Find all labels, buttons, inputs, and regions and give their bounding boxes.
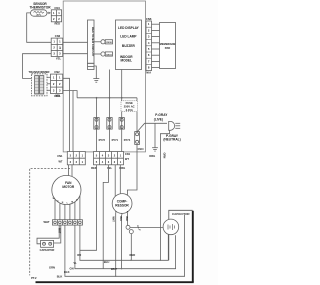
node dot rail B comp <box>121 268 122 269</box>
svg-text:FUSE: FUSE <box>126 101 133 105</box>
wire rectifier to ground <box>94 66 96 79</box>
ground symbol <box>93 79 99 83</box>
svg-text:RY72: RY72 <box>99 138 106 142</box>
membrane pad wires <box>152 24 160 67</box>
wire OLP to run capacitor <box>130 226 163 228</box>
wire display to bus 1 <box>109 70 111 98</box>
node dot 3 <box>121 97 123 99</box>
svg-text:P-GRAY: P-GRAY <box>155 113 168 117</box>
svg-text:BLK: BLK <box>64 270 70 274</box>
svg-text:(LIVE): (LIVE) <box>154 118 163 122</box>
svg-text:RED: RED <box>91 166 97 170</box>
wire bus to relay RY74 <box>121 98 123 152</box>
wire fan to capacitor 1 <box>37 225 59 244</box>
svg-text:ORG: ORG <box>149 154 155 158</box>
svg-text:M: M <box>71 202 73 204</box>
svg-text:25°C: 25°C <box>36 15 41 17</box>
wire CN3 to transformer <box>23 54 52 79</box>
wire fan capacitor 2 <box>52 225 61 243</box>
chassis ground symbol <box>149 148 158 159</box>
svg-text:CN4: CN4 <box>54 6 60 10</box>
varistor ZNR1 <box>101 40 113 45</box>
svg-text:BLK: BLK <box>57 274 63 278</box>
wire CN2 to strip A <box>63 78 70 152</box>
bus wire horizontal <box>77 97 137 99</box>
wire strip to compressor 2 <box>119 165 121 195</box>
wire bus to relay RY71 <box>109 98 111 152</box>
label P-GRAY LIVE <box>154 113 168 121</box>
wire compressor S to rail C <box>115 213 117 277</box>
svg-text:3.15A: 3.15A <box>126 108 133 112</box>
connector CN6 <box>146 17 152 74</box>
wire rail A <box>80 225 168 260</box>
outdoor section dashed border <box>30 168 70 275</box>
svg-text:RED: RED <box>130 253 136 257</box>
wire strip to compressor 1 <box>114 165 116 198</box>
svg-text:CN31: CN31 <box>106 54 112 56</box>
svg-text:WHT: WHT <box>43 220 49 224</box>
wire strip col3 jog to rail B <box>103 165 108 269</box>
rectifier circuit box <box>88 20 96 70</box>
svg-text:CN2: CN2 <box>54 70 60 74</box>
svg-text:LED DISPLAY: LED DISPLAY <box>118 26 140 30</box>
svg-text:PAD: PAD <box>165 46 171 50</box>
svg-text:RD: RD <box>77 253 81 257</box>
svg-text:N/A: N/A <box>146 70 151 74</box>
wire transformer out 2 <box>47 83 51 85</box>
transformer T1 <box>29 70 50 96</box>
bottom thick border <box>36 281 194 283</box>
terminal strip right group <box>94 152 124 165</box>
wire strip col5 to rail A <box>80 165 97 251</box>
fan motor M1 <box>52 175 81 204</box>
connector CN4 <box>51 6 61 26</box>
svg-text:CN10: CN10 <box>138 149 145 151</box>
svg-text:CN1: CN1 <box>125 152 131 156</box>
svg-text:WHT: WHT <box>112 217 114 223</box>
overload protector OLP <box>126 225 140 234</box>
svg-text:MOTOR: MOTOR <box>62 185 75 189</box>
svg-text:BUZZER: BUZZER <box>122 44 136 48</box>
power plug <box>169 121 181 130</box>
svg-text:CN3: CN3 <box>55 34 61 38</box>
wire live to chassis ground <box>154 123 156 147</box>
svg-text:BLU: BLU <box>119 217 121 222</box>
connector CN2 <box>51 70 63 98</box>
svg-text:MODEL: MODEL <box>120 58 132 62</box>
PCB board outline <box>63 1 145 152</box>
svg-text:THERMISTOR: THERMISTOR <box>29 6 51 10</box>
relay RY74 <box>119 118 131 142</box>
wire CN2 to bus <box>73 91 77 98</box>
relay RY71 <box>107 118 119 142</box>
svg-text:(NEUTRAL): (NEUTRAL) <box>163 138 180 142</box>
wire to varistor 2 <box>94 53 101 55</box>
fan capacitor C1 <box>40 240 55 251</box>
wire strip to fan 2 <box>71 165 73 177</box>
node dot rail A olp <box>130 260 131 261</box>
svg-text:WHT: WHT <box>111 267 117 271</box>
node dot 1 <box>96 97 98 99</box>
svg-text:GRN: GRN <box>163 153 167 159</box>
wire thermistor to CN4 with arrow <box>47 12 51 15</box>
svg-text:250V AC: 250V AC <box>124 104 135 108</box>
wire CN2 to strip B <box>63 91 73 152</box>
svg-text:CN6: CN6 <box>146 17 152 21</box>
svg-text:RY74: RY74 <box>124 138 131 142</box>
wire fuse to live plug <box>137 123 167 131</box>
wire CN3 to rectifier 2 <box>63 53 88 55</box>
terminal strip CN1 labels left <box>57 154 63 164</box>
wire fuse bottom to compressor R <box>127 144 137 196</box>
node dot rail C comp <box>115 276 116 277</box>
relay RY72 <box>94 118 106 142</box>
node dot fuse top <box>136 131 138 133</box>
wire compressor R to OLP <box>126 213 128 226</box>
compressor M2 <box>112 194 132 216</box>
svg-text:W: W <box>53 198 55 200</box>
run capacitor enclosure <box>169 210 193 282</box>
terminal strip left group <box>67 152 85 165</box>
connector CN3 <box>51 34 63 60</box>
svg-text:CAPACITOR: CAPACITOR <box>40 249 55 252</box>
wire transformer out 1 <box>47 76 51 78</box>
wire rail C <box>65 215 185 276</box>
svg-text:LED LAMP: LED LAMP <box>120 34 137 38</box>
wire to varistor 1 <box>94 41 101 43</box>
wire bus to relay RY72 <box>96 98 98 152</box>
varistor ZNR2 <box>101 52 113 57</box>
svg-text:CN30: CN30 <box>106 42 112 44</box>
wire strip to fan 1 <box>68 165 70 176</box>
wire rail B <box>75 225 176 269</box>
svg-text:GRN: GRN <box>49 266 55 270</box>
svg-text:WHT: WHT <box>57 228 59 234</box>
svg-text:RED: RED <box>54 21 60 25</box>
thermistor TH1 <box>31 10 48 17</box>
svg-text:MEMBRANE: MEMBRANE <box>160 42 176 46</box>
svg-text:RESSOR: RESSOR <box>115 204 129 208</box>
run capacitor C2 <box>163 219 179 235</box>
svg-text:CN1: CN1 <box>57 154 63 158</box>
sensor label <box>29 2 51 10</box>
wire transformer out 3 <box>47 89 51 91</box>
display board box <box>116 20 142 70</box>
wire display to bus 2 <box>121 70 123 98</box>
svg-text:RY71: RY71 <box>112 138 119 142</box>
svg-text:YL: YL <box>73 261 77 265</box>
svg-text:BLU: BLU <box>104 260 110 264</box>
svg-text:WT: WT <box>125 157 129 161</box>
wire bus to fuse <box>136 98 138 132</box>
svg-text:BLK: BLK <box>125 217 127 222</box>
membrane pad <box>160 23 176 69</box>
svg-text:GN: GN <box>69 267 73 271</box>
wire CN3 to rectifier 1 <box>63 41 88 43</box>
wire neutral to rail A <box>160 130 169 260</box>
svg-text:YEL: YEL <box>56 56 62 60</box>
fan motor wires to terminal strip <box>55 196 80 220</box>
node dot rail A neutral <box>160 260 161 261</box>
wire OLP down to rail A <box>130 234 132 261</box>
fuse note box <box>121 101 138 112</box>
wire color labels under strip <box>91 166 125 170</box>
wire compressor C to rail B <box>121 215 123 269</box>
terminal strip CN1 labels right <box>125 152 131 161</box>
fan terminal strip <box>43 220 82 225</box>
fuse F1 <box>135 132 140 145</box>
svg-text:CAPACITOR: CAPACITOR <box>172 212 190 216</box>
node dot 2 <box>109 97 111 99</box>
wire thermistor left loop to CN3 <box>27 13 52 42</box>
svg-text:WT: WT <box>58 159 62 163</box>
svg-text:RED: RED <box>54 94 60 98</box>
svg-text:PT.2: PT.2 <box>31 276 37 280</box>
label P-GRAY NEUTRAL <box>163 134 180 142</box>
svg-text:YEL: YEL <box>107 166 113 170</box>
